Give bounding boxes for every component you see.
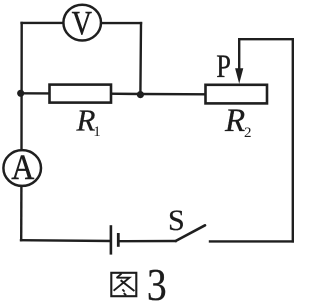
wire node to R2 xyxy=(140,93,206,96)
svg-text:R: R xyxy=(224,103,245,139)
wire voltmeter right vertical xyxy=(139,23,142,94)
voltmeter U: circle V xyxy=(63,3,101,41)
wire R1 row left xyxy=(21,92,50,94)
resistor R2 (rheostat body) xyxy=(206,85,268,104)
wire left vertical lower xyxy=(20,187,23,241)
wire bottom right xyxy=(210,240,293,242)
wire bottom middle (battery to switch) xyxy=(119,240,175,243)
battery long plate xyxy=(110,225,113,254)
caption glyph 图 (drawn) xyxy=(111,273,136,296)
svg-text:S: S xyxy=(168,204,185,237)
svg-text:P: P xyxy=(216,48,231,84)
wire top-right horizontal xyxy=(101,22,142,24)
battery short plate xyxy=(117,233,120,247)
svg-text:1: 1 xyxy=(93,124,101,140)
svg-text:V: V xyxy=(72,3,93,41)
svg-text:2: 2 xyxy=(244,125,252,141)
wire right vertical xyxy=(292,39,294,241)
node left junction dot xyxy=(17,90,24,97)
switch S lever xyxy=(176,225,205,241)
svg-text:A: A xyxy=(11,148,34,187)
wire slider top loop xyxy=(239,38,293,40)
wire top-left horizontal xyxy=(22,22,65,24)
ammeter U: circle A xyxy=(3,148,41,187)
node right junction dot xyxy=(137,91,144,98)
wire bottom left xyxy=(21,239,110,242)
slider arrowhead P xyxy=(235,68,243,84)
svg-text:3: 3 xyxy=(147,261,167,305)
resistor R1 xyxy=(50,85,112,103)
wire R1 row right xyxy=(111,92,141,95)
wire slider shaft xyxy=(238,39,240,72)
wire left vertical upper xyxy=(20,23,23,150)
